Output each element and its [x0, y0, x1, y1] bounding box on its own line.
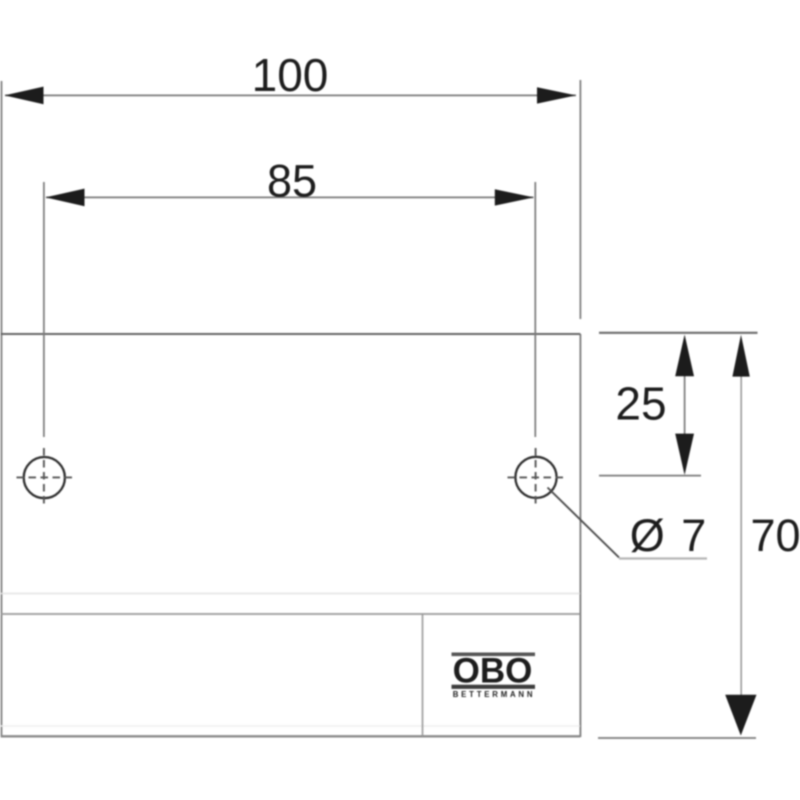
svg-text:70: 70 — [750, 510, 800, 561]
svg-text:100: 100 — [252, 49, 329, 101]
svg-text:85: 85 — [267, 156, 317, 207]
svg-text:BETTERMANN: BETTERMANN — [453, 690, 536, 699]
svg-text:25: 25 — [615, 378, 666, 430]
svg-text:Ø 7: Ø 7 — [630, 510, 709, 561]
svg-text:OBO: OBO — [453, 652, 533, 691]
